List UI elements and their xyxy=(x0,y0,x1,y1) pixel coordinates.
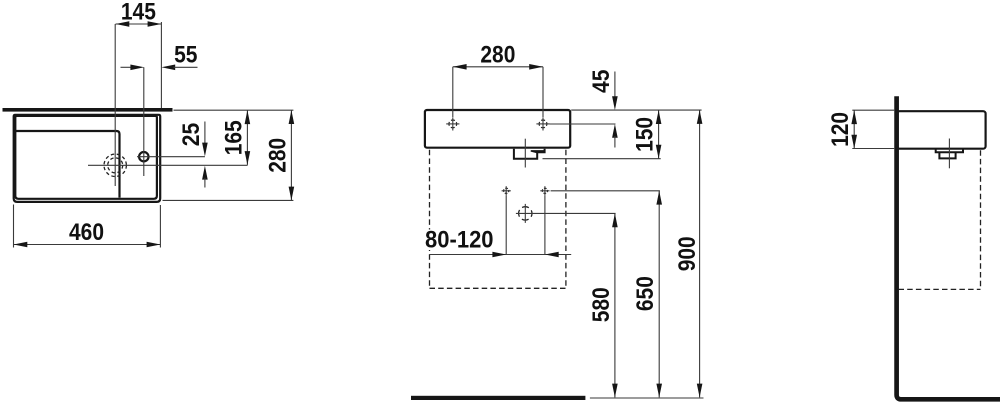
dimension 25 xyxy=(178,122,208,188)
dimension 280 (plan) xyxy=(163,110,295,200)
svg-text:650: 650 xyxy=(632,276,659,311)
washbasin inner rim (plan) xyxy=(15,116,157,199)
reference line from right fixing hole xyxy=(550,123,616,125)
tap vertical centerline / extension for 55 xyxy=(143,67,145,176)
washbasin outer rim (plan) xyxy=(14,115,161,202)
extension lines for 80-120 xyxy=(505,196,507,255)
drain trap (front) xyxy=(514,149,545,159)
wall line (plan view) xyxy=(3,108,173,112)
floor line thick (front) xyxy=(411,396,585,400)
dimension 120 xyxy=(827,110,857,148)
drain centerline (side) xyxy=(948,139,950,169)
fixing hole right (front) xyxy=(536,117,549,130)
bottom extension line for 150 xyxy=(543,158,661,160)
drain centerline (front) xyxy=(524,139,526,168)
dimension 460 xyxy=(14,205,161,248)
svg-text:165: 165 xyxy=(220,120,247,155)
drain trap lip (side) xyxy=(936,149,963,152)
svg-text:45: 45 xyxy=(588,70,615,93)
svg-text:580: 580 xyxy=(588,287,615,322)
svg-text:120: 120 xyxy=(827,112,854,147)
svg-text:280: 280 xyxy=(264,138,291,173)
top extension line (front) xyxy=(571,109,701,111)
dimension 900 xyxy=(674,110,702,397)
svg-text:280: 280 xyxy=(480,41,515,68)
dimension 165 xyxy=(220,110,250,165)
lower fixing hole left (front) xyxy=(502,186,511,195)
svg-text:80-120: 80-120 xyxy=(425,226,494,253)
dimension 580 xyxy=(588,213,618,397)
washbasin body (side) xyxy=(897,111,986,149)
fixing hole left (front) xyxy=(446,117,459,130)
floor line thin (front) xyxy=(590,397,704,399)
dimension 145 xyxy=(116,0,162,108)
dimension 55 xyxy=(121,42,198,71)
drain horizontal centerline xyxy=(88,164,248,166)
dimension 80-120 xyxy=(424,226,571,257)
svg-text:460: 460 xyxy=(69,219,104,246)
lower fixing hole right (front) xyxy=(540,186,549,195)
dimension 45 xyxy=(588,70,618,148)
svg-text:25: 25 xyxy=(178,123,205,146)
trap lip line (front) xyxy=(531,151,545,152)
washbasin body (front) xyxy=(425,110,570,148)
svg-text:150: 150 xyxy=(632,117,659,152)
hidden shroud outline (dashed, front) xyxy=(430,150,566,288)
svg-text:55: 55 xyxy=(174,42,197,69)
extension lines for 120 xyxy=(852,109,894,111)
drain trap cup (side) xyxy=(939,152,955,158)
drain vertical centerline / extension for 145 xyxy=(114,24,116,186)
dimension 280 (front) xyxy=(453,41,543,117)
svg-text:900: 900 xyxy=(674,236,701,271)
dimension 650 xyxy=(632,191,662,398)
wall drain hole (dashed circle, front) xyxy=(519,204,532,223)
dimension 150 xyxy=(632,110,662,158)
reference line from lower right fixing hole xyxy=(551,190,660,192)
drain hole (dashed circles, plan) xyxy=(104,154,126,176)
bowl outline (plan) xyxy=(15,131,119,198)
wall and floor line (side) xyxy=(897,96,1000,399)
tap horizontal centerline xyxy=(137,156,205,158)
reference line from wall drain hole xyxy=(516,212,616,214)
hidden shroud outline (dashed, side) xyxy=(899,150,981,289)
tap hole (plan) xyxy=(139,152,148,161)
svg-text:145: 145 xyxy=(121,0,156,26)
